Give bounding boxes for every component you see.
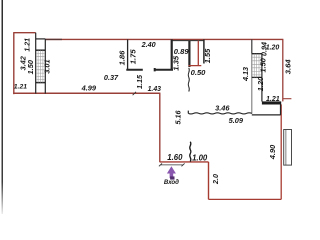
partition wavy vertical below closet	[188, 68, 189, 92]
svg-text:5.16: 5.16	[174, 110, 183, 125]
svg-text:1.21: 1.21	[14, 83, 27, 90]
wall: dark segment at top wall start	[45, 38, 62, 40]
right shaft left rail (4.13)	[251, 39, 253, 53]
svg-text:5.09: 5.09	[229, 116, 244, 125]
wall: straight segment to right wall	[252, 105, 281, 115]
balcony door leaf rectangle	[284, 130, 292, 166]
svg-text:1.86: 1.86	[118, 50, 127, 66]
right staircase top bar	[252, 53, 262, 55]
svg-text:0.89: 0.89	[174, 47, 190, 56]
svg-text:1.15: 1.15	[135, 74, 144, 89]
wall: small red step at right (1.21)	[283, 98, 292, 100]
svg-text:0.50: 0.50	[191, 68, 207, 77]
right staircase treads	[252, 54, 261, 78]
staircase upper crossbar	[36, 49, 46, 51]
closet left thick wall	[171, 39, 173, 69]
door squiggle at entrance (between 1.60 and 1.00)	[190, 142, 191, 162]
wall: mid vertical left of hall (5.16)	[159, 93, 161, 162]
svg-text:1.50: 1.50	[259, 57, 268, 72]
svg-text:1.35: 1.35	[171, 55, 180, 71]
thick black bar (right box bottom)	[262, 101, 281, 104]
wall segment right of door	[155, 68, 173, 71]
wall: main lower-left horizontal (4.99 / 1.43)	[13, 92, 160, 94]
staircase top bar	[36, 38, 46, 40]
svg-text:4.90: 4.90	[268, 144, 277, 160]
wall: right outer lower vertical	[280, 104, 282, 199]
svg-text:3.46: 3.46	[215, 103, 230, 112]
closet middle thick wall (0.89/0.50)	[188, 41, 190, 67]
wall: main top horizontal	[45, 38, 283, 40]
wall: right outer upper vertical	[282, 39, 284, 101]
closet right outer wall (1.55)	[203, 39, 205, 63]
wall: bathroom left vertical (1.86/1.75)	[127, 39, 129, 69]
border frame line (left)	[0, 0, 1, 1]
wall: entrance alcove bottom (1.60/1.00)	[160, 161, 209, 163]
tick separating 4.99 / 1.43	[133, 92, 136, 95]
svg-text:4.99: 4.99	[81, 84, 97, 93]
wall: bottom horizontal	[209, 198, 282, 200]
svg-text:2.0: 2.0	[211, 174, 220, 185]
wavy wall (3.46) with left tick	[187, 111, 189, 114]
svg-text:1.43: 1.43	[148, 86, 162, 93]
staircase right rail	[44, 39, 46, 94]
svg-text:2.40: 2.40	[141, 40, 156, 49]
svg-text:1.75: 1.75	[129, 49, 138, 65]
svg-text:1.60: 1.60	[167, 153, 183, 162]
svg-text:0.37: 0.37	[104, 73, 119, 82]
svg-text:1.21: 1.21	[266, 96, 280, 103]
svg-text:Вход: Вход	[164, 179, 179, 186]
svg-text:1.50: 1.50	[26, 59, 35, 74]
right staircase bottom bar	[252, 76, 262, 78]
staircase lower crossbar	[36, 82, 46, 84]
svg-text:1.20: 1.20	[256, 76, 265, 91]
wall: vestibule box left	[13, 32, 15, 94]
wall: vestibule box top	[14, 32, 36, 34]
svg-text:1.55: 1.55	[203, 48, 212, 63]
svg-text:3.64: 3.64	[284, 59, 293, 75]
staircase (left vestibule) left rail	[35, 33, 37, 94]
wall: entrance right vertical (2.0)	[208, 162, 210, 200]
closet red niche: right side + bottom	[189, 41, 202, 66]
staircase treads	[36, 50, 45, 82]
wall segment left of door (0.37)	[126, 69, 143, 71]
svg-text:1.00: 1.00	[192, 154, 208, 163]
svg-text:3.01: 3.01	[43, 59, 52, 73]
right staircase right rail	[261, 54, 263, 102]
svg-text:4.13: 4.13	[241, 67, 250, 82]
dimension line under alcove (1.60)	[160, 164, 183, 166]
closet top line	[172, 40, 204, 42]
svg-text:1.21: 1.21	[24, 38, 31, 52]
entrance arrow (purple)	[167, 166, 176, 173]
svg-text:0.94: 0.94	[259, 42, 268, 56]
